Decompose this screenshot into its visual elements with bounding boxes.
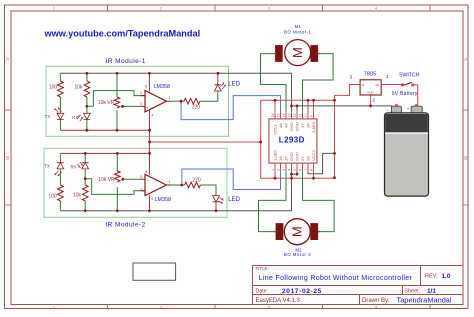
svg-text:3,4EN: 3,4EN [311, 122, 316, 133]
wire: VR wiper to opamp1 pin3 [124, 105, 141, 107]
wire: module1 top GND rail [60, 73, 291, 110]
svg-text:3: 3 [140, 175, 142, 179]
wire: module2 top VCC rail [60, 152, 149, 154]
frame side ticks [5, 110, 469, 205]
svg-text:13: 13 [288, 113, 292, 117]
svg-text:REV:: REV: [425, 274, 438, 280]
svg-text:10k VR: 10k VR [98, 177, 115, 183]
svg-text:3A: 3A [305, 123, 310, 128]
wire: red bottom VCC bus [261, 177, 335, 179]
svg-text:+: + [146, 179, 148, 183]
svg-text:4: 4 [288, 169, 292, 171]
IR Module-1 box [46, 66, 229, 136]
op-amp U1 LM358 (module1) [145, 91, 166, 112]
svg-text:GND: GND [294, 152, 299, 161]
svg-text:VI: VI [362, 83, 365, 87]
svg-text:10k: 10k [74, 85, 83, 91]
svg-text:B: B [6, 156, 9, 161]
svg-text:M: M [290, 47, 305, 58]
svg-text:Date:: Date: [256, 289, 268, 295]
svg-text:3: 3 [268, 7, 270, 11]
svg-text:14: 14 [282, 113, 286, 117]
svg-text:1: 1 [271, 169, 275, 171]
diode TX (module1) [55, 107, 64, 119]
svg-text:4: 4 [151, 197, 153, 201]
svg-text:2: 2 [140, 91, 142, 95]
svg-text:2: 2 [277, 169, 281, 171]
motor M1 body [285, 40, 311, 66]
svg-text:TapendraMandal: TapendraMandal [397, 296, 452, 305]
IC pin numbers [271, 113, 314, 170]
svg-text:A: A [6, 57, 9, 62]
op-amp U2 LM358 (module2) [145, 174, 166, 195]
svg-text:8: 8 [310, 169, 314, 171]
svg-text:Sheet:: Sheet: [404, 289, 420, 295]
frame top ticks [108, 5, 431, 11]
svg-text:Drawn By:: Drawn By: [362, 298, 390, 304]
svg-text:1/1: 1/1 [427, 288, 436, 295]
svg-text:1: 1 [53, 305, 55, 309]
logo placeholder box [133, 263, 176, 280]
wire: red left VCC vertical [260, 100, 262, 178]
motor M2 brushes [276, 224, 283, 240]
svg-text:1A: 1A [278, 156, 283, 161]
svg-text:L293D: L293D [279, 136, 305, 145]
svg-text:TX: TX [45, 164, 51, 169]
resistor R 100 (module1) [58, 81, 64, 97]
wire: red right VCC vertical [334, 100, 336, 178]
svg-text:2Y: 2Y [300, 156, 305, 161]
svg-text:6: 6 [299, 169, 303, 171]
svg-text:7805: 7805 [364, 72, 377, 78]
wire: opamp2 output [171, 184, 185, 186]
svg-text:9: 9 [310, 115, 314, 117]
wire: red top bus to pin16 and pin9 [275, 100, 314, 110]
svg-text:220: 220 [192, 104, 201, 110]
svg-text:7: 7 [304, 169, 308, 171]
wire: RX junction to opamp2 pin2 [85, 179, 145, 195]
IC pin labels top [272, 122, 316, 135]
svg-text:4A: 4A [278, 123, 283, 128]
wire: 220 to LED2 [201, 185, 217, 196]
svg-text:LM358: LM358 [155, 197, 171, 203]
wire: gray GND line to battery minus [292, 106, 393, 111]
regulator 7805 body [360, 80, 381, 95]
LED2 (module2) [213, 196, 224, 211]
svg-text:GND: GND [289, 122, 294, 131]
svg-text:100: 100 [48, 194, 57, 200]
wire: M2 left terminal to pin3 [259, 172, 287, 232]
svg-text:3Y: 3Y [300, 123, 305, 128]
wire: gray pin4-pin5 GND branch [292, 172, 298, 175]
svg-text:LED: LED [228, 197, 240, 203]
IC pin stubs top (16..9) and bottom (1..8) [275, 110, 314, 119]
svg-text:100: 100 [49, 85, 58, 91]
IR Module-2 box [44, 148, 227, 217]
potentiometer 10k VR (module1) [116, 73, 118, 130]
switch S1 [401, 84, 404, 87]
wire: module2 bottom GND rail [60, 172, 291, 211]
svg-text:10k: 10k [73, 192, 82, 198]
svg-text:EasyEDA V4.1.3: EasyEDA V4.1.3 [256, 298, 301, 304]
motor M2 body [284, 219, 310, 245]
svg-text:4Y: 4Y [283, 123, 288, 128]
svg-text:SWITCH: SWITCH [399, 73, 420, 79]
svg-text:3: 3 [140, 102, 142, 106]
svg-text:1,2EN: 1,2EN [272, 150, 277, 161]
svg-text:GND: GND [289, 152, 294, 161]
wire: blue opamp1 output to L293D pin15 [181, 96, 280, 120]
diode RX (module2) [77, 162, 89, 169]
svg-text:LED: LED [228, 82, 240, 88]
svg-text:B: B [464, 156, 467, 161]
svg-text:A: A [464, 57, 467, 62]
svg-text:BO Motor-1: BO Motor-1 [284, 29, 311, 34]
wire: left column leads M1 [59, 73, 61, 130]
wire: M2 right terminal to pin6 [303, 172, 335, 232]
frame bottom ticks [108, 305, 431, 309]
wire: red bottom bus to pin1 and pin8 [275, 172, 314, 179]
svg-text:IR Module-1: IR Module-1 [106, 58, 146, 65]
svg-text:Line Following Robot Without M: Line Following Robot Without Microcontro… [259, 275, 413, 282]
wire: RX junction to opamp1 pin2 [87, 91, 145, 107]
svg-text:2: 2 [140, 187, 142, 191]
svg-text:IR Module-2: IR Module-2 [105, 222, 145, 229]
svg-text:2017-02-25: 2017-02-25 [282, 288, 322, 295]
svg-text:3: 3 [268, 305, 270, 309]
svg-text:RX: RX [72, 115, 78, 120]
svg-text:16: 16 [271, 113, 275, 117]
svg-text:M: M [290, 226, 305, 237]
battery terminals [391, 106, 401, 113]
resistor R 10k (module2) [82, 185, 88, 201]
svg-text:VCC2: VCC2 [311, 150, 316, 161]
svg-text:1Y: 1Y [283, 156, 288, 161]
svg-text:GND: GND [294, 122, 299, 131]
wire: 7805 pin1 to switch [381, 84, 402, 86]
title block [253, 266, 464, 305]
svg-text:2: 2 [372, 97, 375, 103]
diode TX (module2) [55, 163, 64, 176]
frame zone numbers [53, 7, 377, 310]
wire: left column leads M2 [59, 153, 61, 210]
svg-text:+: + [146, 106, 148, 110]
svg-text:8: 8 [145, 85, 147, 89]
wire: opamp1 output [171, 100, 184, 102]
wire: M1 left terminal to pin11 [261, 54, 287, 111]
svg-text:1: 1 [386, 74, 389, 80]
svg-text:4: 4 [375, 305, 377, 309]
svg-text:1: 1 [169, 180, 171, 184]
svg-text:GND: GND [367, 91, 373, 95]
potentiometer 10k VR (module2) [116, 153, 118, 210]
svg-text:11: 11 [299, 114, 303, 118]
svg-text:LM358: LM358 [154, 84, 170, 90]
svg-text:220: 220 [192, 178, 201, 184]
frame zone letters [6, 57, 467, 161]
svg-text:8: 8 [145, 170, 147, 174]
resistor R 10k (module1) [84, 81, 90, 97]
svg-text:2: 2 [160, 305, 162, 309]
resistor R 220 (module1) [184, 98, 200, 104]
svg-text:TITLE:: TITLE: [256, 266, 269, 271]
svg-text:TX: TX [45, 114, 51, 119]
wire: M1 right terminal to VCC bus [303, 54, 334, 111]
opamp1 power stubs / inter-module VCC vertical [148, 73, 150, 211]
LED1 (module1) [214, 73, 225, 91]
wire: 7805 pin3 to VCC bus [335, 85, 361, 101]
IC U3 L293D body [269, 119, 317, 163]
wire: red VCC link between modules [150, 141, 261, 143]
svg-text:9V Battery: 9V Battery [392, 91, 418, 97]
svg-text:BO Motor-2: BO Motor-2 [284, 252, 311, 257]
svg-text:VCC1: VCC1 [272, 124, 277, 135]
svg-text:www.youtube.com/TapendraMandal: www.youtube.com/TapendraMandal [44, 28, 201, 38]
svg-text:+: + [407, 107, 410, 112]
wire: 220 to LED1 [200, 91, 218, 101]
wire: second column leads M2 [84, 153, 86, 210]
wire: blue opamp2 output to L293D pin2 [182, 169, 281, 190]
diode RX (module1) [77, 113, 90, 121]
svg-text:12: 12 [293, 113, 297, 117]
svg-text:1.0: 1.0 [442, 273, 451, 280]
svg-text:4: 4 [375, 7, 377, 11]
resistor R 100 (module2) [58, 185, 64, 201]
svg-text:1: 1 [53, 7, 55, 11]
svg-text:5: 5 [293, 169, 297, 171]
wire: red top VCC bus [261, 99, 335, 101]
motor M1 brushes [276, 46, 283, 62]
svg-text:1: 1 [169, 96, 171, 100]
svg-text:3: 3 [282, 169, 286, 171]
svg-text:10k VR: 10k VR [98, 100, 115, 106]
wire: switch to battery plus [414, 85, 418, 106]
resistor R 220 (module2) [185, 182, 201, 188]
wire: VR wiper to opamp2 pin3 [124, 178, 140, 180]
wire: 7805 pin2 to GND line [370, 95, 372, 106]
svg-text:RX: RX [71, 165, 77, 170]
IC pin labels bottom [272, 150, 316, 161]
battery body [385, 113, 429, 196]
svg-text:3: 3 [350, 74, 353, 80]
wire: module1 bottom VCC rail [60, 129, 149, 131]
svg-text:2: 2 [160, 7, 162, 11]
wire: second column leads M1 [86, 73, 88, 130]
svg-text:4: 4 [151, 114, 153, 118]
wire: gray pin7 jog to VCC vertical [308, 153, 335, 173]
svg-text:10: 10 [304, 113, 308, 117]
motor terminal pin marks M1 and M2 [274, 54, 320, 232]
svg-text:15: 15 [277, 113, 281, 117]
svg-text:2A: 2A [305, 156, 310, 161]
